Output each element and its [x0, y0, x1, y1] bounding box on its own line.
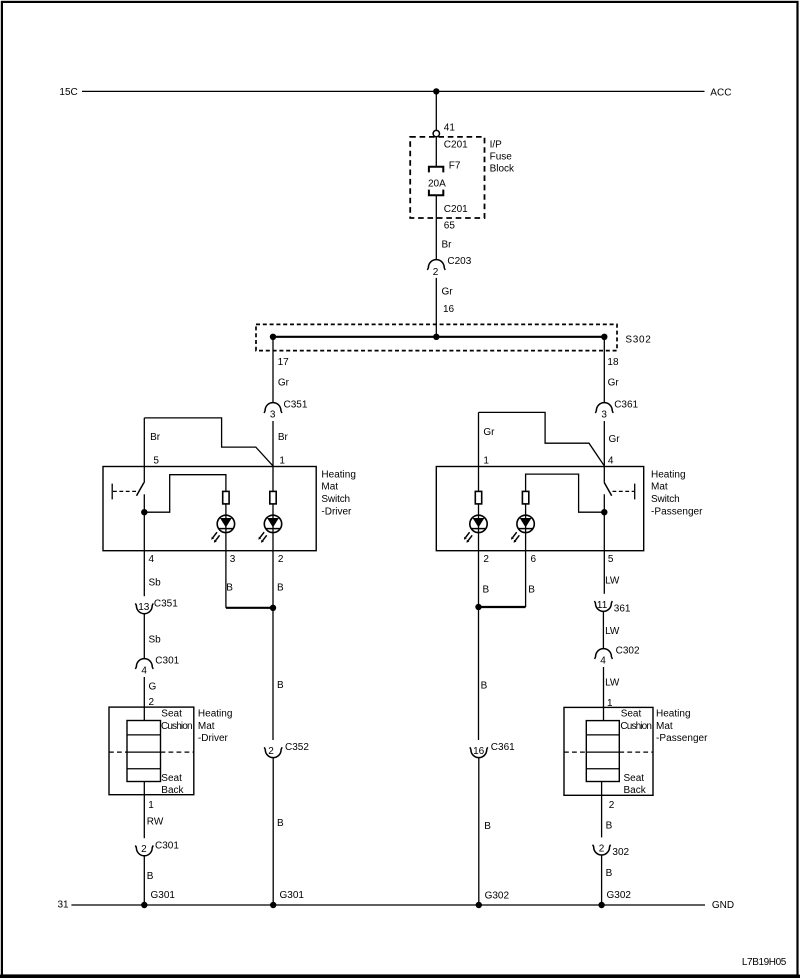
resistor LED2 passenger [522, 491, 528, 504]
svg-text:Switch: Switch [651, 494, 680, 505]
connector C301 pin 2 [135, 846, 153, 856]
svg-text:31: 31 [58, 900, 70, 911]
svg-text:I/P: I/P [490, 139, 503, 150]
wire top power rail [82, 90, 705, 92]
svg-text:Seat: Seat [161, 773, 182, 784]
svg-text:Heating: Heating [198, 709, 233, 720]
svg-text:Mat: Mat [656, 721, 673, 732]
svg-text:4: 4 [141, 665, 147, 676]
svg-text:Gr: Gr [609, 434, 621, 445]
svg-text:C201: C201 [444, 139, 468, 150]
wire S302 to C351 pin 17, Gr [272, 337, 274, 403]
svg-text:Gr: Gr [608, 378, 620, 389]
svg-text:B: B [277, 582, 284, 593]
svg-text:LW: LW [605, 576, 620, 587]
svg-text:L7B19H05: L7B19H05 [742, 957, 787, 968]
svg-text:C301: C301 [155, 840, 179, 851]
svg-text:G301: G301 [280, 890, 305, 901]
connector C351 pin 3 [264, 403, 282, 413]
resistor LED2 driver [270, 491, 276, 504]
svg-text:Mat: Mat [321, 482, 338, 493]
svg-text:LW: LW [605, 626, 620, 637]
svg-text:1: 1 [483, 455, 489, 466]
dashed cushion/back divider driver [109, 751, 127, 753]
svg-text:ACC: ACC [710, 88, 731, 99]
svg-text:G302: G302 [607, 890, 632, 901]
switch actuator driver [111, 484, 113, 500]
svg-text:Br: Br [442, 239, 453, 250]
svg-text:Block: Block [490, 164, 515, 175]
svg-text:GND: GND [712, 900, 734, 911]
svg-text:Seat: Seat [621, 709, 642, 720]
svg-text:B: B [277, 818, 284, 829]
svg-text:C361: C361 [614, 400, 638, 411]
svg-text:S302: S302 [625, 334, 651, 345]
wire C352 to ground G301, B [272, 758, 274, 905]
connector 361 pin 11 [594, 601, 612, 611]
svg-text:C301: C301 [155, 655, 179, 666]
svg-text:17: 17 [278, 357, 290, 368]
pin 41 terminal circle [433, 130, 439, 136]
svg-text:Sb: Sb [149, 578, 162, 589]
wire branch to passenger switch pin 1, Gr [479, 412, 605, 466]
LED 1 passenger (indicator) [470, 515, 487, 532]
svg-text:B: B [528, 585, 535, 596]
heating mat switch passenger box [436, 467, 643, 551]
svg-text:F7: F7 [449, 161, 461, 172]
svg-text:2: 2 [483, 554, 489, 565]
svg-text:Heating: Heating [656, 709, 691, 720]
svg-text:4: 4 [600, 655, 606, 666]
junction in driver switch [141, 509, 147, 515]
connector C301 pin 4 [135, 659, 153, 669]
svg-text:Br: Br [150, 432, 161, 443]
wire C301 to heating mat driver, G, pin 2 [143, 677, 145, 721]
svg-text:2: 2 [268, 746, 274, 757]
junction in passenger switch [601, 509, 607, 515]
svg-text:Sb: Sb [149, 634, 162, 645]
svg-text:LW: LW [605, 678, 620, 689]
wire rail to fuse block pin 41 [435, 91, 437, 130]
svg-text:20A: 20A [428, 178, 446, 189]
dashed cushion/back divider passenger [564, 751, 586, 753]
svg-text:Mat: Mat [651, 482, 668, 493]
svg-text:1: 1 [148, 800, 154, 811]
connector C361 pin 3 [595, 403, 613, 413]
wire 361 to C302, LW [602, 611, 604, 648]
fuse F7 20A [429, 167, 443, 173]
switch contact blade passenger [604, 483, 611, 496]
svg-text:B: B [277, 680, 284, 691]
svg-text:3: 3 [270, 410, 276, 421]
splice bus wire [273, 336, 604, 338]
connector C352 pin 2 [264, 747, 282, 757]
svg-text:Fuse: Fuse [490, 152, 513, 163]
junction right [601, 334, 607, 340]
svg-text:C361: C361 [491, 742, 515, 753]
svg-text:1: 1 [279, 455, 285, 466]
connector 302 pin 2 [593, 845, 611, 855]
wire switch to pin 5 [603, 494, 605, 594]
svg-text:3: 3 [601, 410, 607, 421]
splice S302 dashed box [256, 324, 617, 350]
svg-text:-Passenger: -Passenger [651, 506, 703, 517]
heating element passenger [586, 721, 619, 782]
wire junction to LED resistor driver [144, 475, 226, 513]
svg-text:16: 16 [473, 746, 485, 757]
heating mat passenger box [564, 707, 653, 795]
wire 302 to ground G302, B [601, 855, 603, 905]
svg-text:C351: C351 [284, 400, 308, 411]
svg-text:B: B [226, 582, 233, 593]
svg-text:C203: C203 [447, 256, 471, 267]
wire C302 to heating mat passenger, LW, pin 1 [603, 667, 605, 721]
svg-text:65: 65 [444, 220, 456, 231]
svg-text:2: 2 [609, 800, 615, 811]
svg-text:2: 2 [141, 844, 147, 855]
svg-text:5: 5 [608, 554, 614, 565]
wire switch to pin 4 [143, 494, 145, 596]
svg-text:C351: C351 [154, 598, 178, 609]
svg-text:C352: C352 [285, 742, 309, 753]
wire to C352, B [272, 608, 274, 740]
connector C203 pin 2 [427, 260, 445, 270]
join pins 3 and 2 driver [226, 607, 273, 609]
svg-text:6: 6 [531, 554, 537, 565]
wire junction to LED resistor passenger [526, 474, 605, 512]
connector C361 pin 16 [470, 747, 488, 757]
svg-text:G: G [149, 682, 157, 693]
heating mat driver box [109, 707, 194, 795]
svg-text:-Passenger: -Passenger [656, 733, 708, 744]
resistor LED1 passenger [475, 491, 481, 504]
svg-text:G302: G302 [485, 891, 510, 902]
wire heating mat driver pin 1, RW [143, 782, 145, 839]
heating mat switch driver box [103, 467, 316, 551]
svg-text:Heating: Heating [321, 469, 356, 480]
svg-text:B: B [606, 820, 613, 831]
svg-text:361: 361 [614, 604, 631, 615]
svg-text:G301: G301 [151, 890, 176, 901]
junction center [433, 334, 439, 340]
svg-text:Gr: Gr [483, 427, 495, 438]
connector C351 pin 13 [135, 603, 153, 613]
svg-text:Back: Back [624, 785, 647, 796]
resistor LED1 driver [223, 491, 229, 504]
junction on power rail [433, 88, 439, 94]
svg-text:5: 5 [153, 455, 159, 466]
svg-text:RW: RW [147, 817, 164, 828]
svg-text:C201: C201 [444, 204, 468, 215]
wire ground rail [71, 904, 705, 906]
switch contact blade driver [137, 483, 144, 496]
svg-text:15C: 15C [59, 87, 77, 98]
join pins 6 and 2 passenger [479, 606, 526, 608]
svg-text:Seat: Seat [161, 709, 182, 720]
svg-text:-Driver: -Driver [198, 733, 229, 744]
wire C301 to ground G301, B [143, 856, 145, 905]
svg-text:B: B [483, 585, 490, 596]
svg-text:41: 41 [444, 123, 456, 134]
svg-text:Mat: Mat [198, 721, 215, 732]
I/P fuse block dashed box [410, 137, 484, 218]
wire heating mat passenger pin 2, B [601, 782, 603, 838]
wire C203 to splice S302, Gr, pin 16 [435, 278, 437, 337]
svg-text:Heating: Heating [651, 469, 686, 480]
heating element driver [127, 721, 161, 782]
wire fuse to connector C203, pin 65, Br [435, 195, 437, 260]
wire C351 to C301, Sb [143, 614, 145, 659]
wire branch to driver switch pin 5, Br [144, 418, 273, 466]
junction left [270, 334, 276, 340]
LED 1 driver (indicator) [217, 515, 234, 532]
svg-text:Cushion: Cushion [620, 721, 652, 732]
switch actuator passenger [634, 484, 636, 500]
wire to C361, B [478, 607, 480, 740]
svg-text:C302: C302 [616, 645, 640, 656]
svg-text:Switch: Switch [321, 494, 350, 505]
svg-text:Gr: Gr [278, 378, 290, 389]
svg-text:Seat: Seat [624, 773, 645, 784]
svg-text:3: 3 [230, 554, 236, 565]
svg-text:Back: Back [161, 785, 184, 796]
svg-text:B: B [484, 821, 491, 832]
svg-text:2: 2 [433, 267, 439, 278]
svg-text:4: 4 [149, 554, 155, 565]
wire pin41 to fuse [435, 137, 437, 166]
svg-text:302: 302 [612, 847, 629, 858]
svg-text:13: 13 [138, 602, 150, 613]
LED 2 driver (indicator) [264, 515, 281, 532]
svg-text:4: 4 [608, 455, 614, 466]
connector C302 pin 4 [595, 649, 613, 659]
svg-text:2: 2 [599, 843, 605, 854]
svg-text:B: B [481, 681, 488, 692]
svg-text:2: 2 [278, 554, 284, 565]
wire S302 to C361 pin 18, Gr [603, 337, 605, 403]
wire C351 to switch pin 1, Br [272, 421, 274, 491]
svg-text:Br: Br [278, 432, 289, 443]
svg-text:11: 11 [597, 600, 608, 611]
svg-text:Cushion: Cushion [161, 721, 193, 732]
svg-text:18: 18 [607, 357, 619, 368]
wire C361 to switch pin 4, Gr [603, 421, 605, 483]
svg-text:-Driver: -Driver [321, 506, 352, 517]
svg-text:B: B [606, 868, 613, 879]
svg-text:Gr: Gr [442, 287, 454, 298]
svg-text:16: 16 [443, 304, 455, 315]
svg-text:B: B [147, 871, 154, 882]
LED 2 passenger (indicator) [517, 515, 534, 532]
wire C361 to ground G302, B [478, 758, 480, 905]
